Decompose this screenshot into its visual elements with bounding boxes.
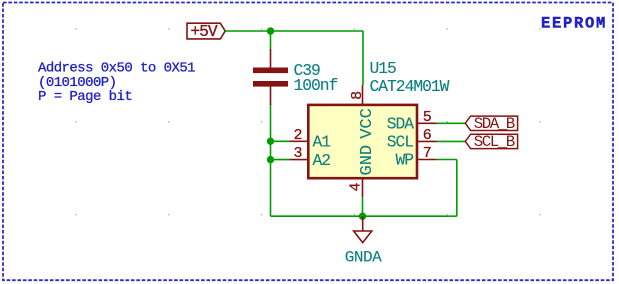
- wire to pin 3: [271, 159, 290, 161]
- wire pin5 to SDA_B: [437, 122, 466, 124]
- wire pin4 to rail: [362, 197, 364, 216]
- pin 5: [417, 122, 437, 124]
- svg-text:SDA: SDA: [387, 115, 415, 134]
- svg-text:4: 4: [347, 182, 364, 191]
- svg-text:2: 2: [293, 127, 302, 144]
- wire +5V to corner: [225, 30, 363, 32]
- wire to pin 2: [271, 140, 290, 142]
- pin 8: [362, 85, 364, 105]
- ground GNDA: [345, 216, 382, 266]
- svg-text:3: 3: [293, 145, 302, 162]
- hierarchical label SCL_B: [465, 133, 517, 151]
- junction at +5V: [267, 27, 274, 34]
- svg-text:GNDA: GNDA: [345, 249, 382, 267]
- svg-text:EEPROM: EEPROM: [541, 15, 607, 33]
- hierarchical label SDA_B: [465, 115, 517, 133]
- svg-text:SCL_B: SCL_B: [474, 133, 515, 151]
- pin 2: [290, 140, 309, 142]
- pin 3: [290, 159, 309, 161]
- svg-text:6: 6: [423, 127, 432, 144]
- svg-text:8: 8: [349, 91, 366, 100]
- capacitor C39: [253, 49, 288, 105]
- power symbol +5V: [187, 22, 225, 41]
- svg-text:SDA_B: SDA_B: [474, 115, 515, 133]
- junction GND rail: [359, 213, 366, 220]
- svg-text:CAT24M01W: CAT24M01W: [370, 77, 450, 96]
- svg-text:U15: U15: [370, 59, 397, 78]
- bottom rail wire: [271, 215, 457, 217]
- wire down to pin 8: [362, 31, 364, 85]
- pin 4: [362, 178, 364, 197]
- wire junction to cap top: [270, 31, 272, 50]
- wire WP down: [456, 160, 458, 217]
- svg-text:GND: GND: [358, 145, 377, 176]
- junction pin2: [267, 138, 274, 145]
- svg-text:5: 5: [423, 109, 432, 126]
- svg-text:+5V: +5V: [190, 22, 218, 41]
- svg-text:WP: WP: [395, 151, 413, 170]
- svg-text:P = Page bit: P = Page bit: [38, 89, 132, 105]
- pin 7: [417, 159, 437, 161]
- wire cap bottom down left rail: [270, 105, 272, 217]
- svg-text:7: 7: [423, 145, 432, 162]
- wire pin6 to SCL_B: [437, 140, 466, 142]
- IC U15 body: [308, 105, 417, 178]
- pin 6: [417, 140, 437, 142]
- wire pin7 to corner: [437, 159, 457, 161]
- svg-text:A2: A2: [313, 151, 331, 170]
- grid dots: [75, 28, 77, 30]
- junction pin3: [267, 156, 274, 163]
- svg-text:100nf: 100nf: [294, 76, 338, 95]
- svg-text:SCL: SCL: [387, 133, 414, 152]
- svg-text:A1: A1: [313, 133, 331, 152]
- svg-text:VCC: VCC: [358, 108, 377, 139]
